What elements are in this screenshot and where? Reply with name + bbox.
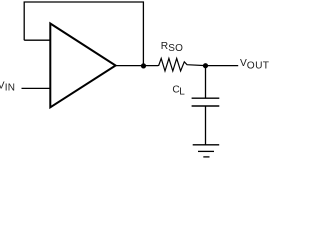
- svg-text:R: R: [161, 41, 168, 52]
- svg-text:SO: SO: [168, 43, 183, 54]
- svg-text:L: L: [179, 87, 185, 98]
- svg-text:IN: IN: [5, 83, 16, 94]
- svg-text:OUT: OUT: [247, 60, 270, 71]
